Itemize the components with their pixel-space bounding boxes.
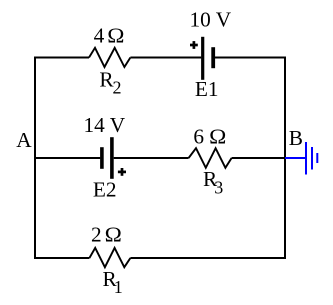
svg-text:B: B	[289, 126, 303, 150]
svg-text:14 V: 14 V	[84, 113, 126, 137]
svg-text:2: 2	[113, 78, 122, 98]
svg-text:4: 4	[94, 23, 105, 47]
svg-text:Ω: Ω	[107, 23, 124, 47]
svg-text:E2: E2	[93, 177, 117, 201]
svg-text:1: 1	[114, 277, 123, 297]
svg-text:E1: E1	[195, 77, 219, 101]
svg-text:3: 3	[214, 178, 223, 198]
svg-text:Ω: Ω	[105, 222, 122, 246]
svg-text:10 V: 10 V	[190, 8, 232, 32]
svg-text:2: 2	[91, 222, 102, 246]
svg-text:A: A	[16, 128, 32, 152]
svg-text:6: 6	[193, 125, 204, 149]
svg-text:Ω: Ω	[209, 125, 226, 149]
